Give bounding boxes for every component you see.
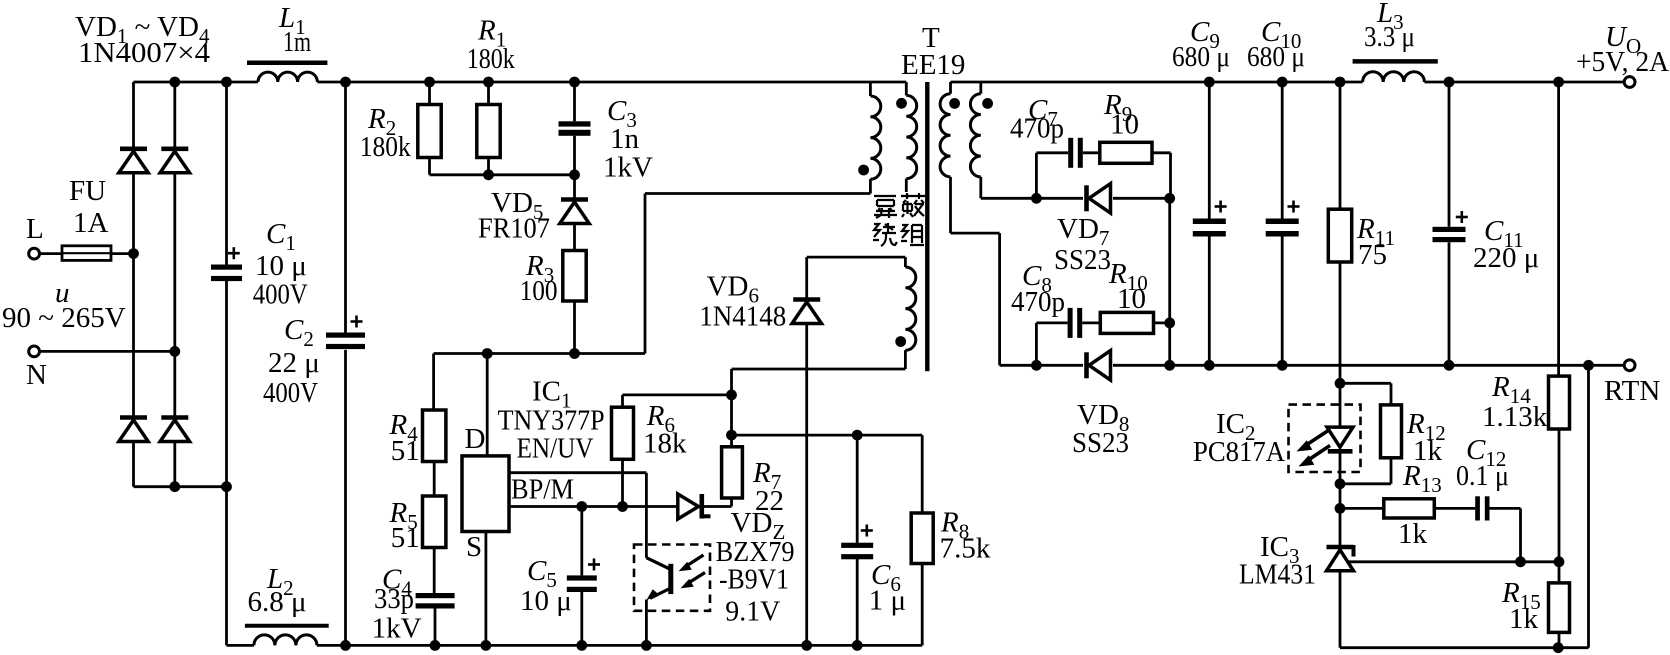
label u 90~265V	[2, 277, 126, 334]
wire IC1 EN/UV pin	[509, 473, 646, 558]
transformer secondary winding A	[940, 82, 960, 233]
svg-text:1.13k: 1.13k	[1482, 401, 1548, 433]
resistor R8 7.5k	[911, 435, 991, 645]
svg-text:10: 10	[1110, 109, 1139, 141]
capacitor C5 10u	[520, 507, 600, 646]
IC2 LED emission arrows	[1297, 430, 1331, 467]
wire VD7 row	[981, 193, 1175, 204]
resistor R11 75	[1328, 82, 1395, 271]
resistor R14 1.13k	[1482, 82, 1570, 562]
wire IC3 anode return	[1340, 365, 1589, 653]
label L1 value	[278, 2, 311, 58]
diode VD1 (upper left)	[119, 149, 148, 173]
resistor R1 180k	[467, 15, 515, 175]
svg-text:SS23: SS23	[1072, 427, 1129, 459]
terminal L	[26, 213, 44, 259]
svg-text:51: 51	[391, 522, 420, 554]
transformer primary winding	[858, 82, 881, 194]
svg-text:PC817A: PC817A	[1193, 436, 1285, 468]
svg-text:400V: 400V	[253, 279, 308, 311]
capacitor C1 10u 400V	[211, 82, 308, 487]
diode VD8 SS23	[1072, 351, 1129, 459]
svg-text:TNY377P: TNY377P	[498, 404, 605, 436]
resistor R6 18k	[612, 395, 688, 507]
resistor R15 1k	[1501, 562, 1570, 648]
svg-text:LM431: LM431	[1239, 559, 1316, 591]
capacitor C11 220u	[1433, 82, 1540, 365]
svg-text:680 μ: 680 μ	[1172, 41, 1230, 73]
inductor L2	[245, 563, 329, 645]
svg-text:10 μ: 10 μ	[255, 250, 307, 282]
wire secondary A to RTN row	[951, 233, 1000, 365]
diode VD7 SS23	[1054, 184, 1111, 276]
shield winding label (Chinese)	[873, 193, 925, 246]
resistor R4 51	[389, 354, 446, 468]
svg-text:33p: 33p	[374, 583, 414, 615]
resistor R12 1k	[1340, 383, 1446, 484]
diode VD2 (upper right)	[160, 149, 190, 173]
capacitor C10 680u	[1247, 16, 1305, 365]
svg-text:3.3 μ: 3.3 μ	[1364, 21, 1415, 53]
capacitor C7 470p	[1010, 94, 1083, 198]
wire bridge right column	[173, 82, 176, 487]
svg-text:N: N	[26, 359, 47, 391]
svg-text:22 μ: 22 μ	[268, 347, 320, 379]
svg-text:470p: 470p	[1011, 286, 1065, 318]
terminal RTN	[1604, 360, 1660, 407]
shunt regulator IC3 LM431	[1239, 508, 1354, 647]
svg-text:L: L	[26, 213, 44, 245]
svg-text:1N4007×4: 1N4007×4	[78, 37, 211, 69]
svg-text:D: D	[465, 423, 486, 455]
fuse FU 1A	[40, 175, 139, 260]
wire VD6 top to feedback winding	[807, 256, 906, 259]
label VD1~VD4 1N4007x4	[75, 11, 211, 69]
zener diode VDz BZX79-B9V1	[678, 494, 795, 628]
wire R6 top to feedback node	[623, 390, 737, 401]
resistor R13 1k	[1340, 460, 1442, 550]
wire top rail primary	[134, 81, 907, 84]
resistor R3 100	[520, 224, 587, 354]
wire VD7 cathode to RTN	[1164, 198, 1175, 365]
wire R1 R2 bottom join	[430, 169, 580, 180]
resistor R10 10	[1082, 258, 1170, 333]
wire IC3 ref line	[1348, 556, 1565, 567]
svg-text:S: S	[466, 531, 482, 563]
resistor R5 51	[389, 462, 446, 555]
svg-text:6.8 μ: 6.8 μ	[248, 586, 307, 618]
wire RTN rail	[1000, 360, 1625, 371]
terminal N	[26, 346, 47, 391]
inductor L3	[1353, 0, 1438, 82]
svg-text:7.5k: 7.5k	[940, 533, 991, 565]
wire top rail secondary	[951, 81, 1625, 84]
svg-text:220 μ: 220 μ	[1473, 242, 1539, 274]
node junction dots on primary top rail	[169, 77, 579, 88]
svg-text:90 ~ 265V: 90 ~ 265V	[2, 302, 126, 334]
transformer secondary winding B	[970, 82, 993, 198]
capacitor C4 33p 1kV	[372, 548, 455, 646]
wire feedback winding bottom bus	[732, 368, 906, 371]
svg-text:BP/M: BP/M	[511, 474, 574, 506]
capacitor C6 1u	[841, 435, 906, 645]
svg-text:1N4148: 1N4148	[699, 300, 786, 332]
svg-text:1k: 1k	[1398, 518, 1428, 550]
svg-text:180k: 180k	[360, 131, 411, 163]
svg-text:400V: 400V	[263, 377, 318, 409]
node dots on secondary top rail	[1204, 77, 1564, 88]
capacitor C12 0.1u	[1434, 434, 1520, 562]
transformer shield winding	[896, 82, 917, 192]
diode VD5 FR107	[478, 175, 589, 245]
svg-text:680 μ: 680 μ	[1247, 41, 1305, 73]
capacitor C9 680u	[1172, 16, 1230, 365]
capacitor C2 22u 400V	[263, 82, 365, 645]
svg-text:FU: FU	[69, 175, 106, 207]
resistor R2 180k	[360, 82, 441, 175]
wire bias node line	[732, 430, 923, 441]
svg-text:1m: 1m	[283, 26, 311, 58]
inductor L1	[247, 63, 327, 82]
diode VD6 1N4148	[699, 257, 821, 645]
svg-text:100: 100	[520, 275, 558, 307]
IC2 light arrows into transistor	[679, 555, 705, 588]
wire C1 column to bottom rail	[225, 487, 228, 646]
svg-text:EN/UV: EN/UV	[517, 433, 594, 465]
diode VD3 (lower left)	[119, 418, 148, 442]
svg-text:1kV: 1kV	[372, 613, 422, 645]
svg-text:75: 75	[1358, 239, 1387, 271]
diode VD4 (lower right)	[160, 418, 190, 442]
transistor IC2 photo-transistor	[634, 545, 710, 646]
svg-text:1 μ: 1 μ	[869, 585, 906, 617]
wire IC1 BP/M pin	[509, 501, 678, 512]
svg-text:1n: 1n	[610, 123, 640, 155]
wire N input	[40, 346, 181, 357]
terminal Uo +5V 2A	[1576, 21, 1669, 87]
wire drain riser	[645, 194, 870, 354]
resistor R7 22	[722, 369, 784, 517]
svg-text:9.1V: 9.1V	[725, 596, 780, 628]
capacitor C8 470p	[1011, 260, 1082, 365]
svg-text:18k: 18k	[643, 428, 687, 460]
svg-text:1k: 1k	[1509, 603, 1539, 635]
svg-text:FR107: FR107	[478, 213, 550, 245]
wire bridge left column	[132, 82, 135, 487]
transformer feedback winding	[895, 257, 916, 369]
svg-text:+5V, 2A: +5V, 2A	[1576, 46, 1669, 78]
capacitor C3 1n 1kV	[559, 82, 654, 184]
wire bottom rail primary	[227, 644, 923, 647]
wire IC1 D pin	[465, 354, 488, 456]
svg-text:470p: 470p	[1010, 113, 1064, 145]
svg-text:1A: 1A	[73, 207, 109, 239]
svg-text:-B9V1: -B9V1	[719, 564, 789, 596]
transformer T EE19 label	[901, 22, 965, 81]
svg-text:51: 51	[391, 435, 420, 467]
wire drain bus horizontal	[434, 348, 645, 359]
svg-text:1kV: 1kV	[603, 152, 653, 184]
svg-text:180k: 180k	[467, 43, 515, 75]
wire R11 to LED (crosses RTN)	[1335, 262, 1346, 389]
svg-text:10 μ: 10 μ	[520, 585, 572, 617]
svg-text:SS23: SS23	[1054, 244, 1111, 276]
resistor R9 10	[1083, 89, 1171, 198]
op-amp IC1 TNY377P box	[462, 376, 605, 532]
node dots on bottom rail	[340, 640, 863, 651]
svg-text:EE19: EE19	[901, 49, 965, 81]
svg-text:RTN: RTN	[1604, 375, 1660, 407]
svg-text:10: 10	[1117, 283, 1146, 315]
LED IC2 PC817A	[1193, 383, 1361, 514]
wire IC1 S pin	[466, 531, 486, 645]
svg-text:0.1 μ: 0.1 μ	[1456, 460, 1509, 492]
wire bridge bottom join	[134, 481, 232, 492]
transformer core	[925, 82, 929, 371]
